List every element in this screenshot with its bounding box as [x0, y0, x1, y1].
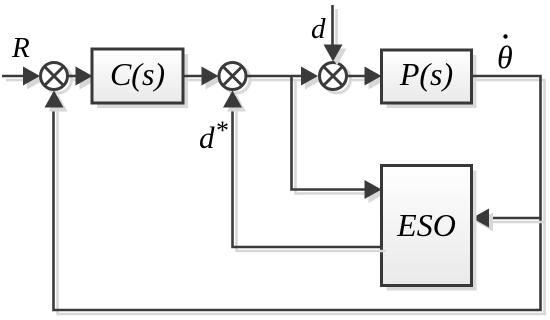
arrowhead into summing junction S3: [301, 67, 322, 90]
arrowhead into P(s): [365, 67, 386, 90]
summing junction S3: [320, 63, 351, 94]
wire d disturbance input: [333, 5, 337, 51]
svg-text:P(s): P(s): [399, 56, 453, 92]
wire theta-dot line into ESO right side: [487, 218, 545, 222]
wire bottom feedback to S1: [54, 104, 547, 314]
wire S3 to P(s): [347, 76, 372, 80]
wire S2 to S3: [246, 76, 308, 80]
arrowhead into ESO left: [365, 180, 386, 203]
arrowhead d into S3: [324, 45, 347, 66]
arrowhead d* into S2: [223, 91, 246, 112]
summing junction S2: [219, 63, 250, 94]
block P(s): [382, 50, 477, 108]
node d* label: [199, 116, 229, 155]
arrowhead into ESO right: [472, 209, 493, 232]
svg-text:d: d: [199, 120, 215, 155]
svg-text:*: *: [216, 116, 229, 145]
svg-text:d: d: [311, 13, 326, 45]
svg-text:θ: θ: [497, 39, 513, 75]
block ESO: [382, 166, 477, 291]
wire P(s) output to right then down (theta-dot line): [472, 76, 545, 313]
node theta-dot label: [497, 34, 513, 75]
svg-text:R: R: [11, 32, 30, 64]
wire ESO d* output left then up into S2: [233, 104, 386, 251]
node tap between S2 and S3, wire down and right into ESO: [292, 76, 373, 194]
arrowhead into summing junction S2: [202, 67, 223, 90]
wire C(s) to S2: [183, 76, 208, 80]
svg-text:ESO: ESO: [396, 207, 456, 243]
wire R input shaft: [2, 76, 31, 80]
arrowhead into C(s): [76, 67, 97, 90]
arrowhead feedback into S1: [45, 91, 68, 112]
summing junction S1: [41, 63, 72, 94]
arrowhead into summing junction S1: [23, 67, 44, 90]
svg-text:C(s): C(s): [110, 56, 165, 92]
block C(s): [92, 49, 188, 108]
wire S1 to C(s): [68, 76, 83, 80]
